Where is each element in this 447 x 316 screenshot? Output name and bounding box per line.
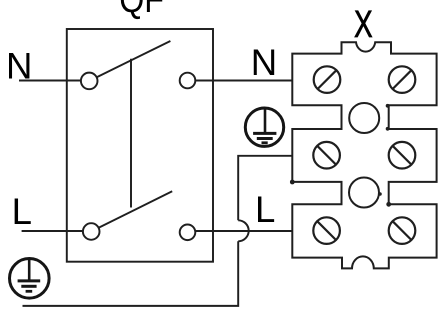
svg-text:L: L <box>12 191 32 232</box>
svg-text:N: N <box>251 42 277 83</box>
svg-text:QF: QF <box>119 0 164 21</box>
svg-text:L: L <box>255 189 275 230</box>
svg-text:N: N <box>6 45 32 86</box>
svg-text:X: X <box>354 4 373 46</box>
